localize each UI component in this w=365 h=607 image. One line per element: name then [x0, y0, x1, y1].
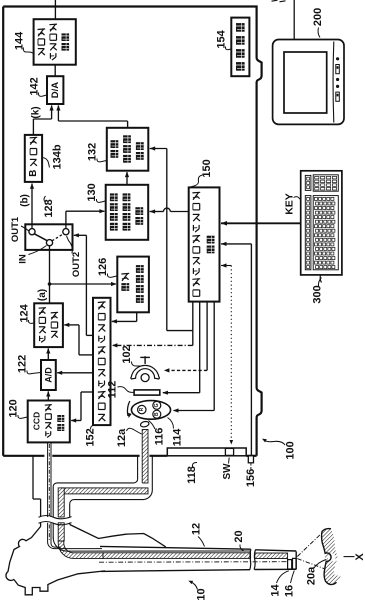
light guide left corner down [58, 488, 64, 517]
svg-text:R: R [139, 407, 145, 411]
svg-text:B: B [154, 412, 160, 416]
wire motion detector 126 output to timing gen [111, 312, 136, 323]
wire SW switch to system control (dotted) [221, 263, 233, 444]
svg-text:10: 10 [196, 588, 208, 600]
svg-text:152: 152 [85, 428, 97, 446]
svg-text:116: 116 [154, 428, 166, 446]
filter segment R [138, 405, 146, 413]
rotary filter wheel 116 disc [131, 401, 170, 420]
label OUT1 [10, 216, 29, 242]
svg-text:KEY: KEY [284, 193, 296, 215]
svg-text:12: 12 [191, 523, 203, 535]
svg-text:100: 100 [285, 441, 297, 459]
connector 156 stub [248, 456, 253, 463]
lamp 102 reflector [131, 365, 160, 379]
wire connector 156 to system control [221, 242, 251, 456]
endoscope operation body outline [6, 527, 105, 595]
label (b) [20, 194, 31, 207]
light guide entrance lens [140, 421, 150, 428]
wire system control to timing gen (dash-dot) [112, 331, 193, 348]
svg-text:14: 14 [270, 584, 282, 597]
svg-text:(a): (a) [37, 289, 48, 301]
label 130 [86, 183, 105, 202]
light guide cord run below break [58, 523, 64, 541]
wire A/D to frame memory [46, 348, 50, 360]
svg-text:134b: 134b [52, 144, 64, 169]
label 142 [29, 77, 47, 96]
label 144 [14, 31, 34, 54]
label 150 [191, 159, 214, 187]
wire timing gen to switch 128 control [73, 233, 93, 335]
wire frame memory to switch IN (a) [49, 250, 51, 303]
label 152 [85, 425, 97, 446]
wire timing gen to frame memory [64, 323, 93, 355]
main unit border left side [2, 7, 4, 456]
view ray upper (dash-dot) [297, 532, 323, 557]
label 124 [19, 303, 34, 323]
svg-text:144: 144 [14, 31, 26, 50]
svg-text:300: 300 [312, 285, 324, 303]
label 114 [168, 418, 184, 447]
label 154 [216, 29, 232, 49]
switch common contact IN [46, 240, 52, 246]
filter segment G [153, 401, 161, 409]
label 120 [8, 399, 28, 418]
light guide cable vertical run from wheel (12a) [142, 430, 148, 484]
monitor 200 outer case [273, 40, 344, 125]
monitor control panel divider [332, 42, 335, 123]
label KEY [284, 193, 301, 215]
switch SW on panel [225, 448, 233, 455]
label 100 [262, 439, 297, 460]
CCD signal wire pair [48, 442, 102, 548]
monitor button strip 2 [336, 92, 340, 101]
lens 16 at tip [293, 558, 297, 569]
svg-text:(k): (k) [31, 106, 42, 118]
label 200 [312, 8, 324, 38]
label SW [222, 458, 233, 480]
svg-text:X: X [354, 553, 365, 561]
svg-text:16: 16 [284, 585, 296, 597]
cord sheath top of horizontal run [53, 483, 134, 487]
wire dye 130 to stabilizer 132 [125, 172, 129, 185]
connector outer shell left [33, 457, 41, 527]
distal tube top edge [255, 550, 296, 551]
insertion tube bottom edge [101, 570, 250, 572]
junction dot on (a) line [48, 282, 52, 286]
inner sheath elbow to tube top line [53, 538, 250, 552]
front panel 118 [167, 448, 246, 456]
label 14 [270, 571, 289, 597]
wire system control to dye circuit 130 (with hop over vertical) [150, 208, 189, 214]
light guide elbow in scope body [58, 541, 103, 558]
label 16 [284, 571, 296, 598]
timing generator box 152 [93, 298, 111, 425]
wire stabilizer 132 to D/A [56, 105, 127, 128]
CCD process circuit box 120 [28, 401, 70, 443]
label X [344, 553, 365, 561]
cord centre dash-dot [48, 444, 50, 541]
svg-text:132: 132 [87, 143, 99, 161]
wire switch OUT1 up to B memory (b) [30, 183, 34, 224]
svg-text:B: B [28, 170, 39, 177]
wire system control to lamp 102 (dashed) [164, 302, 207, 373]
cord sheath bottom of horizontal run [70, 500, 144, 504]
switch contact OUT2 [63, 229, 69, 235]
lamp 102 bulb [141, 374, 149, 382]
label OUT2 [67, 236, 83, 277]
main unit border bottom [3, 455, 256, 457]
wire B memory to D/A with (k) arrow [33, 105, 53, 135]
objective unit 14 at tip [288, 560, 292, 569]
distal tube bottom edge [254, 568, 296, 570]
keyboard 300 [301, 171, 342, 275]
wire video out to top edge [54, 0, 56, 19]
svg-text:124: 124 [19, 303, 31, 322]
wire system control branch up to stabilizer 132 [150, 146, 193, 330]
svg-text:102: 102 [121, 345, 133, 363]
distal tube end face [295, 551, 297, 569]
label 122 [17, 355, 41, 374]
cord sheath right vertical run [69, 504, 71, 525]
lamp 102 stem [140, 356, 150, 364]
svg-text:120: 120 [8, 399, 20, 417]
switch contact OUT1 [29, 229, 35, 235]
svg-text:200: 200 [312, 8, 324, 26]
svg-text:CCD: CCD [31, 412, 41, 430]
label (a) [37, 289, 48, 301]
A/D converter box 122 [41, 360, 56, 390]
svg-text:150: 150 [201, 159, 213, 177]
svg-text:D/A: D/A [50, 82, 61, 99]
tube break left end [250, 549, 251, 570]
wire (a) branch to motion detector 126 [50, 282, 117, 286]
main unit enclosure (processor 100) border right/top [3, 7, 261, 456]
wire CCD process to A/D [46, 391, 50, 401]
svg-text:OUT2: OUT2 [71, 252, 82, 277]
svg-text:G: G [154, 403, 160, 407]
label 128 [43, 196, 55, 218]
switch arm to OUT2 (open, dashed) [52, 234, 64, 241]
cord sheath left of LG at unit [134, 457, 138, 483]
insertion tube top edge [100, 546, 251, 549]
lesion bump white head [328, 553, 336, 561]
cord sheath right of LG at unit [144, 457, 153, 500]
label 102 [121, 345, 141, 366]
subject tissue outline with lesion bump [322, 529, 337, 585]
keyboard cable stub [320, 275, 321, 283]
wire D/A to video process [54, 65, 56, 77]
svg-text:118: 118 [186, 466, 198, 484]
label 118 [186, 462, 198, 483]
svg-text:OUT1: OUT1 [10, 216, 21, 242]
light guide run in insertion tube [103, 553, 251, 559]
svg-text:122: 122 [17, 355, 29, 373]
label 20a [306, 560, 327, 586]
svg-text:114: 114 [172, 428, 184, 447]
svg-text:SW: SW [222, 463, 233, 480]
svg-text:20: 20 [233, 530, 245, 542]
svg-text:156: 156 [245, 469, 257, 487]
system control circuit box 150 [189, 187, 220, 301]
wire system control to filter 112 [162, 302, 199, 395]
wire timing gen to CCD process [71, 392, 93, 423]
label 132 [87, 143, 107, 162]
light guide L-corner outer [64, 483, 142, 488]
wire system control to filter wheel 116 [173, 302, 214, 413]
svg-text:130: 130 [86, 183, 98, 201]
label 12 [191, 523, 205, 547]
label 12a [116, 428, 142, 447]
monitor knob 1 [336, 57, 339, 60]
wire switch OUT2 to dye circuit 130 [66, 209, 105, 224]
monitor screen [284, 52, 327, 113]
view ray lower (dash-dot) [297, 559, 326, 570]
label 156 [245, 464, 257, 488]
svg-text:A/D: A/D [44, 367, 54, 383]
label 10 [188, 581, 207, 601]
B memory box 134b [25, 135, 42, 182]
label 134b [42, 144, 63, 169]
infrared cut filter 112 [134, 390, 160, 395]
svg-text:IN: IN [18, 254, 29, 264]
changeover switch box 128 [25, 224, 72, 250]
svg-text:112: 112 [107, 381, 119, 399]
monitor button strip 1 [336, 65, 340, 74]
cord break wavy lines [39, 516, 72, 525]
cord sheath inner line down to body [52, 487, 54, 539]
cable break marks at top [272, 0, 286, 2]
filter segment B [153, 410, 161, 418]
svg-text:154: 154 [216, 29, 228, 48]
motion detection circuit box 126 [117, 257, 149, 313]
light guide horizontal run [61, 488, 148, 494]
video process circuit box 144 (bideo purosesu kairo) [34, 19, 76, 64]
switch arm to OUT1 (closed) [34, 234, 47, 241]
image quality stabilization circuit box 132 [107, 128, 149, 171]
switch contact stubs [32, 224, 66, 250]
label 126 [97, 258, 117, 278]
svg-text:126: 126 [97, 258, 109, 276]
tube break right end [254, 550, 255, 569]
frame memory box 124 [34, 303, 63, 347]
power supply circuit box 154 (dengen kairo) [231, 18, 249, 77]
label (k) [31, 106, 42, 118]
label IN [18, 246, 47, 264]
label 116 [149, 421, 166, 446]
wire keyboard to system control [221, 221, 301, 226]
tube centre dash-dot axis [99, 561, 288, 564]
svg-text:20a: 20a [306, 566, 318, 585]
monitor knob 2 [336, 78, 339, 81]
monitor cable from unit [293, 0, 295, 40]
wire timing gen to A/D [57, 371, 93, 375]
pseudo dye dispersion processing circuit box 130 [106, 185, 149, 240]
light guide run in distal section [255, 553, 288, 559]
endoscope body top-right boundary [70, 525, 166, 547]
label 20 [233, 530, 245, 550]
subject hatching band [322, 529, 343, 585]
label 112 [107, 381, 134, 399]
label 300 [312, 278, 324, 304]
svg-text:(b): (b) [20, 194, 31, 207]
wheel rotation arrow [127, 401, 131, 418]
monitor knob 3 [336, 85, 339, 88]
D/A converter box 142 [47, 76, 63, 104]
